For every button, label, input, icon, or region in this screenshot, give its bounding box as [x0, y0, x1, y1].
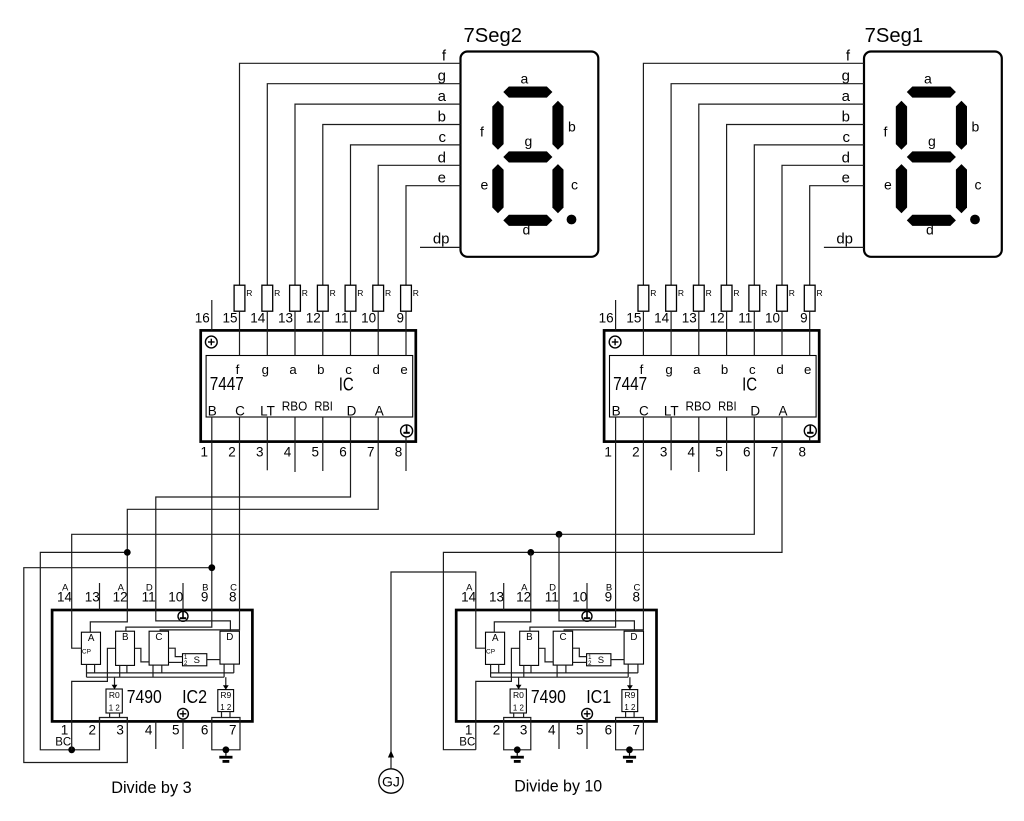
svg-text:c: c: [843, 129, 851, 146]
svg-text:b: b: [972, 119, 980, 135]
display 7Seg2 segment e: [492, 164, 503, 213]
7490 IC2 flip-flop bottom stubs: [152, 665, 154, 677]
svg-text:11: 11: [738, 311, 752, 326]
7490 IC1 R0 input arrow: [518, 677, 520, 685]
wire 7447L pin5 stub: [322, 442, 324, 471]
7447 decoder IC (left) body: [201, 330, 416, 441]
7490 IC1 pins 2-3 ground junction: [514, 746, 521, 753]
wire IC1 pin11 QD branch: [559, 534, 634, 631]
wire 7447R pin1 B to IC1 pin9 QB: [530, 442, 616, 632]
wire 7447L pin6 D to IC2 pin11 QD: [156, 442, 351, 632]
svg-text:4: 4: [688, 445, 696, 460]
7490 IC2 pins 6-7 ground junction: [223, 746, 230, 753]
7490 IC2 R0 block: [106, 689, 122, 713]
7490 counter IC2 body: [52, 610, 252, 721]
svg-text:IC1: IC1: [586, 686, 611, 707]
7447 IC (left) pin 5 wire (inner): [322, 417, 324, 442]
resistor R13 (right): [777, 285, 795, 311]
svg-text:R: R: [357, 288, 363, 298]
svg-text:D: D: [750, 404, 760, 419]
svg-text:1: 1: [201, 445, 209, 460]
display 7Seg1 segment labels: [884, 71, 982, 238]
svg-text:2: 2: [89, 723, 97, 738]
svg-text:1: 1: [465, 723, 473, 738]
7490 IC1 R9 bracket to pins 6,7: [616, 718, 644, 722]
wire 7Seg1 pin c: [754, 145, 864, 285]
svg-text:D: D: [630, 632, 637, 643]
7490 IC1 bottom bus 1: [490, 672, 638, 674]
7490 IC1 pin 5 stub: [586, 721, 588, 749]
svg-text:2: 2: [228, 445, 236, 460]
display 7Seg2 decimal point: [567, 215, 577, 225]
7447 IC (right) inner box: [610, 356, 817, 418]
resistor R14 (right): [804, 285, 822, 311]
display 7Seg1 segment c: [956, 164, 967, 213]
svg-text:g: g: [842, 68, 850, 85]
svg-text:R: R: [246, 288, 252, 298]
7490 IC1 pin 10 ground wire: [586, 583, 588, 612]
resistor R4 (left): [317, 285, 335, 311]
svg-text:RBI: RBI: [314, 400, 333, 414]
svg-text:c: c: [571, 176, 578, 192]
7490 IC1 pins 6-7 ground junction: [626, 746, 633, 753]
clock source GJ: [379, 769, 403, 793]
svg-text:R: R: [733, 288, 739, 298]
svg-text:10: 10: [361, 311, 376, 326]
svg-text:A: A: [88, 633, 95, 644]
svg-text:8: 8: [395, 445, 403, 460]
svg-text:9: 9: [201, 590, 209, 605]
7447 IC (right) ground symbol: [804, 425, 816, 437]
7490 IC1 R0 block: [510, 689, 526, 713]
wire 7Seg2 pin a: [295, 104, 461, 285]
svg-text:1 2: 1 2: [513, 703, 524, 713]
7490 IC2 flip-flop A: [81, 632, 100, 664]
display 7Seg1 decimal point: [970, 215, 980, 225]
svg-text:g: g: [438, 68, 446, 85]
svg-text:B: B: [208, 404, 217, 419]
7447 IC (right) pin 14 wire (resistor to box): [698, 311, 700, 355]
7490 IC2 pin 10 ground wire: [182, 583, 184, 612]
svg-text:10: 10: [168, 590, 183, 605]
display 7Seg1 segment a: [907, 87, 956, 98]
svg-text:A: A: [375, 404, 384, 419]
svg-text:c: c: [439, 129, 447, 146]
7490 IC1 flip-flop bottom stubs: [556, 665, 558, 677]
7447 IC (right) pin 12 wire (resistor to box): [753, 311, 755, 355]
svg-text:R: R: [706, 288, 712, 298]
svg-text:B: B: [526, 632, 533, 643]
7490 IC2 flip-flop B: [116, 631, 135, 665]
svg-text:8: 8: [229, 590, 237, 605]
svg-text:dp: dp: [836, 231, 853, 248]
7490 IC2 R9 block: [218, 690, 234, 712]
svg-text:7: 7: [367, 445, 375, 460]
svg-text:R9: R9: [624, 690, 635, 700]
svg-text:CP: CP: [486, 649, 495, 656]
7490 IC1 flip-flop C: [553, 631, 572, 665]
svg-text:C: C: [155, 632, 162, 643]
svg-text:11: 11: [142, 590, 156, 605]
svg-text:14: 14: [461, 590, 477, 605]
7447 IC (left) ground symbol: [401, 425, 413, 437]
svg-text:RBI: RBI: [718, 400, 737, 414]
resistor R7 (left): [401, 285, 419, 311]
arrow on GJ wire: [388, 751, 394, 758]
wire 7Seg2 pin d: [378, 165, 460, 285]
svg-text:7490: 7490: [531, 686, 566, 707]
svg-text:b: b: [438, 109, 446, 126]
7490 IC1 flip-flop D: [624, 631, 643, 664]
7490 IC2 R9 bracket to pins 6,7: [212, 718, 240, 722]
7490 IC1 pin 4 stub: [558, 721, 560, 749]
display 7Seg1 segment e: [896, 164, 907, 213]
7447 IC (left) pin 14 wire (resistor to box): [294, 311, 296, 355]
svg-text:6: 6: [605, 723, 613, 738]
7490 IC2 flip-flop bottom stubs: [223, 664, 225, 677]
7490 IC1 pins 2-3 ground: [511, 750, 524, 763]
svg-text:1 2: 1 2: [109, 703, 120, 713]
junction IC2 pin1 join: [68, 746, 75, 753]
svg-text:5: 5: [576, 723, 584, 738]
svg-text:a: a: [289, 362, 297, 377]
resistor R6 (left): [373, 285, 391, 311]
svg-text:d: d: [523, 222, 531, 238]
svg-text:a: a: [924, 71, 932, 87]
7490 IC1 bottom bus 2: [491, 676, 629, 678]
wire IC1 pin12 QA branch: [494, 552, 531, 632]
svg-text:d: d: [842, 149, 850, 166]
svg-text:13: 13: [682, 311, 697, 326]
svg-text:R: R: [761, 288, 767, 298]
svg-text:14: 14: [250, 311, 266, 326]
7490 IC2 wire B-C link: [135, 648, 150, 662]
7490 IC1 wire C to S pin2: [573, 661, 587, 663]
svg-text:e: e: [438, 170, 446, 187]
display 7Seg2 segment a: [503, 87, 552, 98]
svg-text:1 2: 1 2: [220, 702, 231, 712]
wire 7Seg1 pin b: [727, 125, 864, 286]
svg-text:d: d: [926, 222, 934, 238]
wire 7Seg2 pin e: [406, 186, 461, 286]
svg-text:e: e: [842, 170, 850, 187]
svg-text:g: g: [525, 133, 533, 149]
display 7Seg2 segment b: [552, 101, 563, 150]
resistor R11 (right): [721, 285, 739, 311]
7490 IC1 flip-flop A: [486, 632, 505, 664]
7490 IC2 power symbol: [178, 708, 189, 719]
junction IC2 pin12 tap: [124, 549, 131, 556]
svg-text:IC2: IC2: [182, 686, 207, 707]
svg-text:e: e: [481, 176, 489, 192]
svg-text:R: R: [274, 288, 280, 298]
svg-text:IC: IC: [742, 374, 757, 395]
7490 IC2 flip-flop bottom stubs: [119, 665, 121, 677]
svg-text:9: 9: [605, 590, 613, 605]
wire 7Seg2 pin b: [323, 125, 461, 286]
svg-text:3: 3: [256, 445, 264, 460]
svg-text:g: g: [928, 133, 936, 149]
7447 IC (left) pin 2 wire (inner): [239, 417, 241, 442]
svg-text:d: d: [776, 362, 783, 377]
7447 IC (left) pin 7 wire (inner): [377, 417, 379, 442]
svg-text:7447: 7447: [210, 373, 244, 394]
svg-text:f: f: [480, 124, 484, 140]
svg-text:10: 10: [572, 590, 587, 605]
7490 IC1 R0 bracket to pins 2,3: [504, 718, 531, 722]
svg-text:R9: R9: [220, 690, 231, 700]
svg-text:3: 3: [660, 445, 668, 460]
svg-text:e: e: [804, 362, 811, 377]
display 7Seg1 body: [864, 52, 1002, 257]
svg-text:C: C: [639, 404, 649, 419]
7490 IC2 wire C to S pin1: [169, 648, 183, 656]
svg-text:14: 14: [654, 311, 670, 326]
svg-text:R: R: [330, 288, 336, 298]
7447 IC (right) pin 4 wire (inner): [698, 417, 700, 442]
svg-text:R0: R0: [109, 690, 120, 700]
7490 IC2 pin 4 stub: [155, 721, 157, 749]
svg-text:g: g: [262, 362, 269, 377]
svg-text:R: R: [413, 288, 419, 298]
7447 IC (right) pin 16 wire (resistor to box): [642, 311, 644, 355]
7447 IC (left) pin 1 wire (inner): [211, 417, 213, 442]
svg-text:f: f: [884, 124, 888, 140]
svg-text:12: 12: [516, 590, 531, 605]
svg-text:8: 8: [632, 590, 640, 605]
7490 IC1 pin 10 ground symbol: [582, 611, 592, 621]
svg-text:a: a: [521, 71, 529, 87]
7490 IC2 wire C to S pin2: [169, 661, 183, 663]
wire IC2 loop pin3 to QB: [24, 568, 212, 763]
svg-text:A: A: [492, 633, 499, 644]
7447 IC (right) pin 16 stub (Vcc): [615, 300, 617, 330]
svg-text:CP: CP: [82, 649, 91, 656]
7490 IC2 pins 6-7 ground: [219, 750, 232, 763]
svg-text:7490: 7490: [127, 686, 162, 707]
svg-text:10: 10: [765, 311, 780, 326]
wire 7447L pin4 stub: [294, 442, 296, 472]
svg-text:Divide by 3: Divide by 3: [111, 778, 192, 797]
7490 IC2 pin 13 stub: [99, 583, 101, 610]
7490 IC1 R9 block: [622, 690, 638, 712]
7447 IC (left) power symbol: [205, 336, 217, 348]
7490 IC2 R9 input arrow: [225, 677, 227, 686]
svg-text:13: 13: [278, 311, 293, 326]
7490 IC2 R0 bracket to pins 2,3: [100, 718, 128, 722]
wire IC2 loop pin2/pin1 to QA: [40, 552, 127, 749]
7490 IC2 flip-flop D: [220, 631, 239, 664]
7490 IC2 flip-flop bottom stubs: [86, 664, 88, 677]
7490 IC1 flip-flop B: [520, 631, 539, 665]
7490 IC1 R9 input arrow: [629, 677, 631, 686]
svg-text:15: 15: [222, 311, 237, 326]
wire IC2 pin1 BC internal: [72, 648, 116, 750]
wire 7Seg1 pin dp (stub): [824, 246, 864, 248]
display 7Seg2 segment f: [492, 101, 503, 150]
svg-text:6: 6: [339, 445, 347, 460]
svg-text:1 2: 1 2: [624, 702, 635, 712]
7447 IC (left) pin 11 wire (resistor to box): [377, 311, 379, 355]
wire 7447L pin8 stub: [405, 442, 407, 471]
7490 IC2 bottom bus 2: [87, 676, 225, 678]
svg-text:R: R: [789, 288, 795, 298]
7490 IC1 pins 6-7 ground loop: [616, 721, 644, 749]
svg-text:R: R: [678, 288, 684, 298]
display 7Seg2 body: [461, 52, 599, 257]
resistor R12 (right): [749, 285, 767, 311]
7447 IC (left) pin 12 wire (resistor to box): [350, 311, 352, 355]
svg-text:LT: LT: [664, 404, 679, 419]
7447 IC (left) pin 8 wire (inner): [405, 436, 407, 442]
svg-text:b: b: [317, 362, 324, 377]
svg-text:LT: LT: [260, 404, 275, 419]
7447 IC (right) pin 3 wire (inner): [670, 417, 672, 442]
7447 IC (left) pin 16 wire (resistor to box): [239, 311, 241, 355]
svg-text:8: 8: [798, 445, 806, 460]
svg-text:7: 7: [632, 723, 640, 738]
7447 IC (right) pin 6 wire (inner): [753, 417, 755, 442]
7490 IC2 wire S to D: [207, 659, 220, 661]
svg-text:S: S: [194, 655, 200, 666]
junction IC2 pin9 tap: [208, 564, 215, 571]
wire 7447R pin5 stub: [726, 442, 728, 471]
svg-text:R0: R0: [513, 690, 524, 700]
svg-text:14: 14: [57, 590, 73, 605]
wire 7Seg2 pin g: [267, 84, 460, 286]
7447 IC (right) power symbol: [609, 336, 621, 348]
resistor R5 (left): [345, 285, 363, 311]
wire 7447L pin2 C to IC2 pin8 QC: [160, 442, 239, 632]
7490 IC1 flip-flop bottom stubs: [627, 664, 629, 677]
7490 IC2 pin 10 ground symbol: [178, 611, 188, 621]
junction cascade / IC1 pin11: [556, 531, 563, 538]
resistor R2 (left): [262, 285, 280, 311]
wire 7447R pin7 A to IC1 pin12 QA and loop to IC1 pin1: [443, 442, 782, 750]
display 7Seg2 segment c: [552, 164, 563, 213]
svg-text:6: 6: [743, 445, 751, 460]
svg-text:IC: IC: [339, 374, 354, 395]
svg-text:BC: BC: [55, 737, 71, 749]
svg-text:e: e: [400, 362, 407, 377]
svg-text:6: 6: [201, 723, 209, 738]
wire 7447L pin1 B to IC2 pin9 QB: [126, 442, 212, 632]
display 7Seg1 segment d: [907, 215, 956, 226]
7447 IC (right) pin 11 wire (resistor to box): [781, 311, 783, 355]
wire 7Seg2 pin c: [351, 145, 461, 285]
display 7Seg2 segment labels: [480, 71, 578, 238]
7490 IC1 wire S to D: [611, 659, 624, 661]
svg-text:7Seg1: 7Seg1: [865, 25, 924, 47]
svg-text:2: 2: [632, 445, 640, 460]
wire 7Seg2 pin f: [240, 63, 461, 285]
7490 IC1 power symbol: [582, 708, 593, 719]
7447 IC (right) pin 1 wire (inner): [615, 417, 617, 442]
svg-text:3: 3: [116, 723, 124, 738]
junction IC1 pin12 tap: [527, 549, 534, 556]
svg-text:a: a: [842, 88, 851, 105]
wire 7Seg1 pin g: [671, 84, 864, 286]
7447 IC (left) inner box: [206, 356, 413, 418]
svg-text:b: b: [842, 109, 850, 126]
7447 IC (right) pin 2 wire (inner): [642, 417, 644, 442]
svg-text:d: d: [438, 149, 446, 166]
svg-text:5: 5: [715, 445, 723, 460]
svg-text:B: B: [122, 632, 129, 643]
svg-text:16: 16: [195, 311, 210, 326]
svg-text:e: e: [884, 176, 892, 192]
7447 decoder IC (right) body: [604, 330, 819, 441]
7447 IC (left) pin 6 wire (inner): [350, 417, 352, 442]
7447 IC (left) pin 13 wire (resistor to box): [322, 311, 324, 355]
svg-text:a: a: [438, 88, 447, 105]
svg-text:5: 5: [172, 723, 180, 738]
svg-text:RBO: RBO: [686, 400, 712, 414]
wire 7Seg1 pin d: [782, 165, 864, 285]
svg-text:2: 2: [493, 723, 501, 738]
wire 7447L pin7 A to IC2 pin12 QA: [90, 442, 378, 633]
svg-text:13: 13: [489, 590, 504, 605]
svg-text:D: D: [226, 632, 233, 643]
svg-text:7: 7: [771, 445, 779, 460]
svg-text:C: C: [235, 404, 245, 419]
svg-text:13: 13: [85, 590, 100, 605]
svg-text:4: 4: [284, 445, 292, 460]
display 7Seg2 segment d: [503, 215, 552, 226]
7490 IC1 gate S: [587, 654, 611, 666]
7447 IC (left) pin 10 wire (resistor to box): [405, 311, 407, 355]
7447 IC (left) pin 4 wire (inner): [294, 417, 296, 442]
resistor R1 (left): [234, 285, 252, 311]
wire 7447R pin6 D and cascade to IC2 pin14 CP: [72, 442, 755, 649]
wire 7447R pin4 stub: [698, 442, 700, 472]
svg-text:3: 3: [520, 723, 528, 738]
svg-text:4: 4: [548, 723, 556, 738]
wire 7Seg1 pin f: [643, 63, 864, 285]
7490 IC2 bottom bus 1: [86, 672, 234, 674]
wire 7447R pin2 C to IC1 pin8 QC: [564, 442, 643, 632]
svg-text:b: b: [568, 119, 576, 135]
svg-text:4: 4: [145, 723, 153, 738]
svg-text:c: c: [975, 176, 982, 192]
7447 IC (right) pin 7 wire (inner): [781, 417, 783, 442]
7490 IC1 wire C to S pin1: [573, 648, 587, 656]
7447 IC (left) pin 16 stub (Vcc): [211, 300, 213, 330]
svg-text:GJ: GJ: [382, 773, 400, 789]
svg-text:A: A: [778, 404, 787, 419]
svg-text:R: R: [650, 288, 656, 298]
wire 7Seg1 pin e: [810, 186, 864, 286]
resistor R10 (right): [693, 285, 711, 311]
7490 IC2 pin 5 stub: [182, 721, 184, 749]
svg-text:12: 12: [113, 590, 128, 605]
svg-text:15: 15: [626, 311, 641, 326]
7490 IC1 pin 13 stub: [503, 583, 505, 610]
svg-text:g: g: [665, 362, 672, 377]
svg-text:b: b: [721, 362, 728, 377]
7447 IC (right) pin 13 wire (resistor to box): [726, 311, 728, 355]
svg-text:12: 12: [306, 311, 321, 326]
display 7Seg1 segment g: [907, 151, 956, 162]
7447 IC (left) pin 3 wire (inner): [266, 417, 268, 442]
7490 IC2 flip-flop C: [149, 631, 168, 665]
svg-text:C: C: [559, 632, 566, 643]
display 7Seg1 segment f: [896, 101, 907, 150]
7490 counter IC1 body: [456, 610, 656, 721]
svg-text:BC: BC: [459, 737, 475, 749]
svg-text:D: D: [347, 404, 357, 419]
7490 IC2 gate S: [183, 654, 207, 666]
